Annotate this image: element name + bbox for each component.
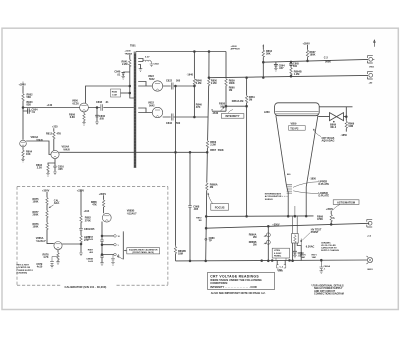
tube V885B (102, 213, 111, 222)
svg-text:C822: C822 (166, 80, 173, 83)
svg-text:.005: .005 (90, 228, 95, 231)
ground (56, 262, 60, 265)
svg-text:T52-P2: T52-P2 (290, 127, 299, 130)
svg-text:SUPPLY CHASSIS: SUPPLY CHASSIS (321, 249, 340, 252)
capacitor C804 stub (23, 108, 32, 113)
resistor R877 (46, 210, 48, 218)
svg-text:.047: .047 (279, 67, 284, 70)
svg-text:10M: 10M (348, 125, 353, 128)
capacitor C822 series (171, 83, 173, 90)
deflection leader lower (293, 191, 318, 194)
CRT grid stub (294, 206, 296, 216)
svg-text:-1850: -1850 (310, 178, 317, 181)
test point C880 (205, 238, 207, 240)
wire V804 plate to V814 grid (26, 141, 51, 155)
wire cal divider x47 (47, 192, 54, 244)
label T801 (125, 45, 137, 56)
astig pot x331.2 (330, 211, 332, 225)
aquadag leader (313, 129, 321, 137)
ground (95, 122, 99, 125)
svg-text:18M: 18M (178, 253, 183, 256)
resistor R867 (306, 50, 308, 58)
svg-text:10K: 10K (26, 153, 31, 156)
svg-text:TRANS: TRANS (125, 52, 133, 55)
svg-text:+350V: +350V (99, 193, 107, 196)
HV test point leader (302, 233, 310, 241)
capacitor C832 series (171, 114, 173, 121)
resistor R869 (345, 121, 347, 129)
svg-text:-1640: -1640 (212, 112, 219, 115)
svg-text:T801: T801 (130, 45, 136, 48)
svg-text:+350V: +350V (42, 190, 50, 193)
svg-text:L860: L860 (264, 111, 270, 114)
capacitor C808 series (101, 104, 103, 111)
wire cathode rail y77.7 (209, 75, 368, 77)
CRT faceplate (275, 103, 320, 116)
pot R866B (266, 240, 270, 244)
svg-text:-1850: -1850 (341, 134, 348, 137)
svg-text:ASTIGMATISM: ASTIGMATISM (337, 200, 355, 204)
calibrator labels (17, 189, 159, 274)
wire V885A plate out (62, 243, 81, 245)
svg-text:FOCUS: FOCUS (215, 205, 225, 209)
wire V814 screen feed x53.8 (53, 128, 55, 150)
svg-text:C808: C808 (96, 101, 103, 104)
svg-text:2M: 2M (253, 244, 256, 247)
svg-text:470K: 470K (317, 218, 323, 221)
svg-text:AQUADAG: AQUADAG (322, 140, 335, 143)
boxed label ASTIGMATISM (333, 200, 359, 205)
connector labels (367, 66, 375, 271)
resistor R842 boxed (111, 89, 121, 97)
svg-text:NE-2: NE-2 (331, 126, 337, 129)
jumper C-2 brackets (277, 261, 285, 265)
svg-text:18M: 18M (312, 257, 316, 259)
svg-text:+225: +225 (52, 126, 58, 129)
svg-text:ADJ.: ADJ. (54, 202, 60, 205)
svg-text:180K: 180K (310, 54, 316, 57)
svg-text:56K: 56K (27, 96, 32, 99)
svg-text:500: 500 (293, 65, 298, 68)
svg-text:+350V: +350V (272, 223, 280, 226)
svg-text:4.7K: 4.7K (43, 256, 48, 259)
svg-text:.01: .01 (105, 101, 109, 104)
switch contact 1 (114, 235, 117, 238)
resistor R856 (206, 140, 208, 148)
wire V822 output (163, 85, 194, 87)
svg-text:2.2M: 2.2M (211, 82, 217, 85)
svg-text:(FRONT PANEL JACK): (FRONT PANEL JACK) (133, 251, 155, 254)
wire V814 cathode lower (48, 159, 55, 165)
svg-text:C-2: C-2 (324, 57, 329, 60)
resistor R861 (245, 95, 247, 103)
svg-text:50K: 50K (220, 105, 225, 108)
svg-text:4x10: 4x10 (37, 266, 43, 269)
wire right chain x81 (80, 190, 82, 253)
svg-text:180K: 180K (229, 82, 235, 85)
svg-text:+350V: +350V (19, 84, 27, 87)
heater (294, 235, 297, 243)
ground (82, 123, 86, 126)
svg-text:2.2M: 2.2M (210, 144, 216, 147)
svg-text:.01: .01 (32, 111, 36, 114)
svg-text:(CHASSIS): (CHASSIS) (17, 272, 28, 275)
boxed label SQUARE-WAVE CALIBRATOR (127, 248, 160, 254)
connector graticule lamp B801 (367, 257, 372, 262)
resistor R804 cathode (22, 147, 24, 159)
tube V804A (20, 140, 27, 147)
wire -1850 divider x209 leaning (206, 52, 209, 261)
ground (79, 253, 83, 256)
box HTRS (272, 248, 289, 258)
svg-text:R876 & R877: R876 & R877 (17, 265, 30, 267)
tube V822 rectifier (152, 81, 162, 91)
svg-text:-1640: -1640 (187, 74, 194, 77)
svg-text:1.2M: 1.2M (294, 73, 300, 76)
wire x246.6 drop (246, 78, 248, 217)
svg-text:100K: 100K (33, 201, 39, 204)
capacitor C886B (100, 256, 104, 258)
wire V800 grid feedback (86, 86, 130, 103)
svg-text:.005: .005 (58, 168, 63, 171)
capacitor C816 (54, 165, 56, 172)
svg-text:1M: 1M (249, 99, 252, 102)
svg-text:R812: R812 (46, 133, 53, 136)
svg-text:R842: R842 (112, 91, 118, 94)
svg-text:SQUARE-WAVE CALIBRATOR: SQUARE-WAVE CALIBRATOR (129, 248, 158, 251)
svg-text:.005: .005 (99, 118, 104, 121)
resistor R802 (22, 93, 24, 101)
svg-text:560K: 560K (325, 61, 331, 64)
tube V814A (51, 150, 59, 158)
transformer T801 (134, 52, 136, 169)
capacitor C869 (293, 243, 297, 255)
wire gun rail y216.3 (206, 215, 313, 218)
svg-text:ACCELERATOR: ACCELERATOR (265, 195, 282, 198)
ground (21, 159, 25, 162)
title box (208, 272, 275, 289)
wire heater right / HV TP (297, 243, 301, 261)
svg-text:5642: 5642 (149, 78, 155, 81)
svg-text:47K: 47K (92, 204, 97, 207)
wire output divider x102 (101, 222, 103, 263)
svg-text:+350V: +350V (326, 208, 334, 211)
capacitor C864A (274, 62, 278, 68)
connector J852 (367, 72, 372, 79)
wire grid rail y152.3 (59, 151, 207, 153)
svg-text:ALSO SEE IMPORTANT NOTE ON PAG: ALSO SEE IMPORTANT NOTE ON PAGE 4-2. (211, 291, 266, 295)
svg-text:+225V: +225V (77, 189, 85, 192)
svg-text:+350V: +350V (303, 42, 311, 45)
svg-text:560K: 560K (218, 149, 224, 152)
resistor R812 (53, 131, 55, 139)
svg-text:LOCATED ON: LOCATED ON (17, 266, 31, 269)
svg-text:2x25: 2x25 (88, 239, 94, 241)
svg-text:18M: 18M (301, 257, 305, 259)
resistor R868B (174, 246, 176, 254)
svg-text:B801: B801 (368, 269, 374, 271)
svg-text:½6U8: ½6U8 (63, 148, 70, 152)
svg-text:C802: C802 (277, 269, 283, 271)
CRT neck right (305, 187, 307, 216)
capacitor C806 (95, 108, 99, 122)
svg-text:500: 500 (176, 122, 181, 125)
svg-text:+140: +140 (47, 104, 53, 107)
svg-text:V851: V851 (369, 66, 375, 68)
resistor R816 (47, 172, 49, 174)
wire V832 output (163, 116, 209, 118)
CRT base (293, 216, 298, 233)
boxed label FOCUS (211, 204, 229, 211)
wire -1850 rail2 y261 (176, 259, 368, 262)
svg-text:1M: 1M (240, 100, 243, 103)
wire taps to V822 (138, 82, 152, 87)
svg-text:6.8K: 6.8K (70, 116, 75, 119)
svg-text:2.2M: 2.2M (122, 63, 128, 66)
switch wiper bar (122, 233, 124, 260)
wire x226 intensity chain (225, 52, 227, 112)
CRT V859 (275, 103, 320, 216)
pot R866A (266, 233, 270, 237)
svg-text:INTENSITY: INTENSITY (225, 114, 239, 118)
ground (121, 77, 125, 80)
svg-text:2.2K: 2.2K (37, 167, 42, 170)
svg-text:2M: 2M (210, 186, 213, 189)
note asterisk (311, 285, 344, 296)
wire main rail y107.5 (23, 107, 80, 109)
CRT neck left (286, 185, 288, 216)
resistor R841 (129, 59, 131, 67)
mid labels (187, 42, 332, 242)
svg-text:200K: 200K (33, 214, 39, 217)
boxed label CRT type (289, 126, 306, 131)
inductor filament tap (138, 59, 143, 69)
svg-text:6CZ6: 6CZ6 (73, 103, 80, 106)
wire heater left to rail2 (292, 243, 294, 261)
svg-text:SHIELD: SHIELD (265, 199, 273, 201)
focus pot arrow (208, 193, 213, 204)
svg-text:POINT: POINT (311, 231, 319, 234)
wire -1850 drop x346.3 (345, 107, 347, 132)
wire -1850 arrow x263.3 (262, 46, 264, 78)
svg-text:500: 500 (176, 80, 181, 83)
svg-text:+104: +104 (84, 210, 90, 213)
resistor R875 (46, 197, 48, 205)
svg-text:47K: 47K (57, 133, 62, 136)
CRT labels (264, 111, 317, 181)
neon labels (265, 123, 355, 201)
capacitor C869A stub (319, 260, 323, 270)
svg-text:2.2M: 2.2M (196, 82, 202, 85)
svg-text:6.3VAC: 6.3VAC (274, 252, 282, 255)
wire neon branch (318, 116, 346, 118)
wire -1850 bus down x175.5 (175, 86, 177, 261)
wire astig rail y224 (206, 223, 369, 228)
svg-text:INTENSITY . . . . . . . . . .: INTENSITY . . . . . . . . . . . . . . . … (210, 285, 257, 289)
wire feedback column x129.8 (130, 55, 134, 99)
capacitor C868 (188, 206, 192, 208)
svg-text:HTRS: HTRS (274, 250, 280, 252)
left section labels (19, 60, 129, 171)
svg-text:POWER SUPPLY: POWER SUPPLY (17, 270, 34, 272)
resistor R806 (83, 112, 85, 122)
calibrator section box (dashed) (17, 187, 168, 286)
capacitor C886A (100, 240, 104, 242)
svg-text:3M: 3M (198, 220, 201, 222)
svg-text:C843: C843 (154, 63, 160, 66)
resistor R878 cathode (57, 250, 59, 262)
svg-text:CRT VOLTAGE READINGS: CRT VOLTAGE READINGS (210, 275, 259, 279)
svg-text:100K: 100K (33, 226, 39, 229)
switch contact 3 (114, 253, 117, 256)
svg-text:82K: 82K (27, 104, 32, 107)
capacitor C864B (289, 62, 293, 76)
resistor R882 (80, 215, 82, 223)
ground (46, 174, 50, 177)
svg-text:V859: V859 (291, 123, 297, 126)
intensity pot arrow (221, 107, 225, 111)
svg-text:INTERMEDIATE: INTERMEDIATE (265, 193, 282, 196)
svg-text:½6U8: ½6U8 (36, 138, 43, 142)
tube V885A (54, 242, 62, 250)
svg-text:1M: 1M (229, 89, 232, 92)
neon lamp B869 (330, 113, 344, 121)
resistor R864 (262, 50, 264, 58)
svg-text:TP: TP (209, 240, 213, 243)
svg-text:D.PLATE: D.PLATE (319, 183, 330, 186)
svg-text:CONNECTIONS DIAGRAM: CONNECTIONS DIAGRAM (314, 293, 344, 296)
wire taps to V832 (138, 108, 152, 113)
node +350V feed left (22, 82, 24, 86)
svg-text:.01: .01 (117, 73, 121, 76)
ground (53, 172, 57, 175)
resistor R876 (46, 222, 48, 230)
svg-text:D.PLATE: D.PLATE (319, 195, 330, 198)
connector J851 top (367, 56, 372, 63)
svg-text:C832: C832 (166, 122, 173, 125)
wire grid rail y62.2 (263, 59, 368, 62)
capacitor C888 tap (111, 255, 115, 263)
svg-text:2M: 2M (253, 236, 256, 239)
svg-text:.01: .01 (298, 255, 302, 258)
wire x190 drop (189, 152, 191, 261)
resistor R868A (206, 182, 208, 190)
wire B+ rail vertical x23 (22, 86, 24, 140)
svg-text:1.5M: 1.5M (112, 94, 117, 96)
wire link y106.2 (226, 105, 247, 107)
connector J853 astig rail (367, 219, 372, 227)
svg-text:PANEL: PANEL (274, 255, 282, 258)
wire +350 feed x307.5 (307, 45, 309, 61)
resistor R840 (193, 78, 195, 86)
wire aquadag top (319, 106, 352, 108)
svg-text:APPROX: APPROX (231, 47, 241, 50)
geometry pots x268.3 (267, 226, 269, 261)
svg-text:270K: 270K (85, 219, 91, 222)
svg-text:6.3V: 6.3V (145, 57, 150, 59)
cal adj pot arrow (49, 205, 54, 208)
tube V800 (80, 103, 89, 112)
rectifier labels (145, 57, 217, 256)
resistor R864B (290, 67, 292, 75)
svg-text:½12AU7: ½12AU7 (127, 211, 137, 215)
svg-text:CONDITIONS:: CONDITIONS: (210, 281, 228, 285)
switch contact 2 (114, 243, 117, 246)
svg-text:2x20: 2x20 (88, 261, 94, 263)
gun area labels (249, 200, 355, 272)
svg-text:R861A: R861A (232, 100, 240, 103)
wire V885B feed x103.6 (103, 195, 105, 213)
svg-text:CALIBRATOR (S/N 101 - 30,000): CALIBRATOR (S/N 101 - 30,000) (65, 285, 107, 289)
resistor R851 (208, 78, 210, 86)
svg-text:6.3VAC: 6.3VAC (306, 245, 315, 248)
wire grid return y111.2 (212, 110, 226, 112)
svg-text:47K: 47K (196, 106, 201, 109)
ground (293, 255, 297, 258)
wire bleed x194.4 (193, 52, 195, 118)
shield leader dashed (282, 195, 288, 197)
resistor R885 (102, 199, 104, 207)
switch taps (102, 236, 114, 255)
deflection plates (287, 185, 292, 193)
wire wiper out (122, 231, 124, 232)
svg-text:R857: R857 (210, 149, 217, 152)
resistor R879 (80, 235, 82, 243)
deflection leader upper (293, 182, 318, 188)
svg-text:½12AU7: ½12AU7 (36, 239, 46, 243)
wire V800 to transformer (88, 107, 133, 109)
svg-text:39K: 39K (266, 53, 271, 56)
wire top HV rail (136, 51, 226, 53)
svg-text:5642: 5642 (149, 105, 155, 108)
tube V832 rectifier (152, 107, 162, 117)
boxed label INTENSITY (221, 114, 244, 119)
capacitor C881 (79, 229, 83, 231)
ground (50, 265, 54, 268)
arrow up (374, 40, 376, 47)
ground (150, 64, 154, 67)
capacitor C879 (50, 257, 58, 266)
astig leader (333, 204, 340, 210)
resistor R859 (225, 78, 227, 86)
capacitor C840 (122, 72, 130, 76)
svg-text:.005: .005 (193, 208, 198, 211)
ground (100, 263, 104, 266)
CRT funnel (276, 116, 318, 187)
